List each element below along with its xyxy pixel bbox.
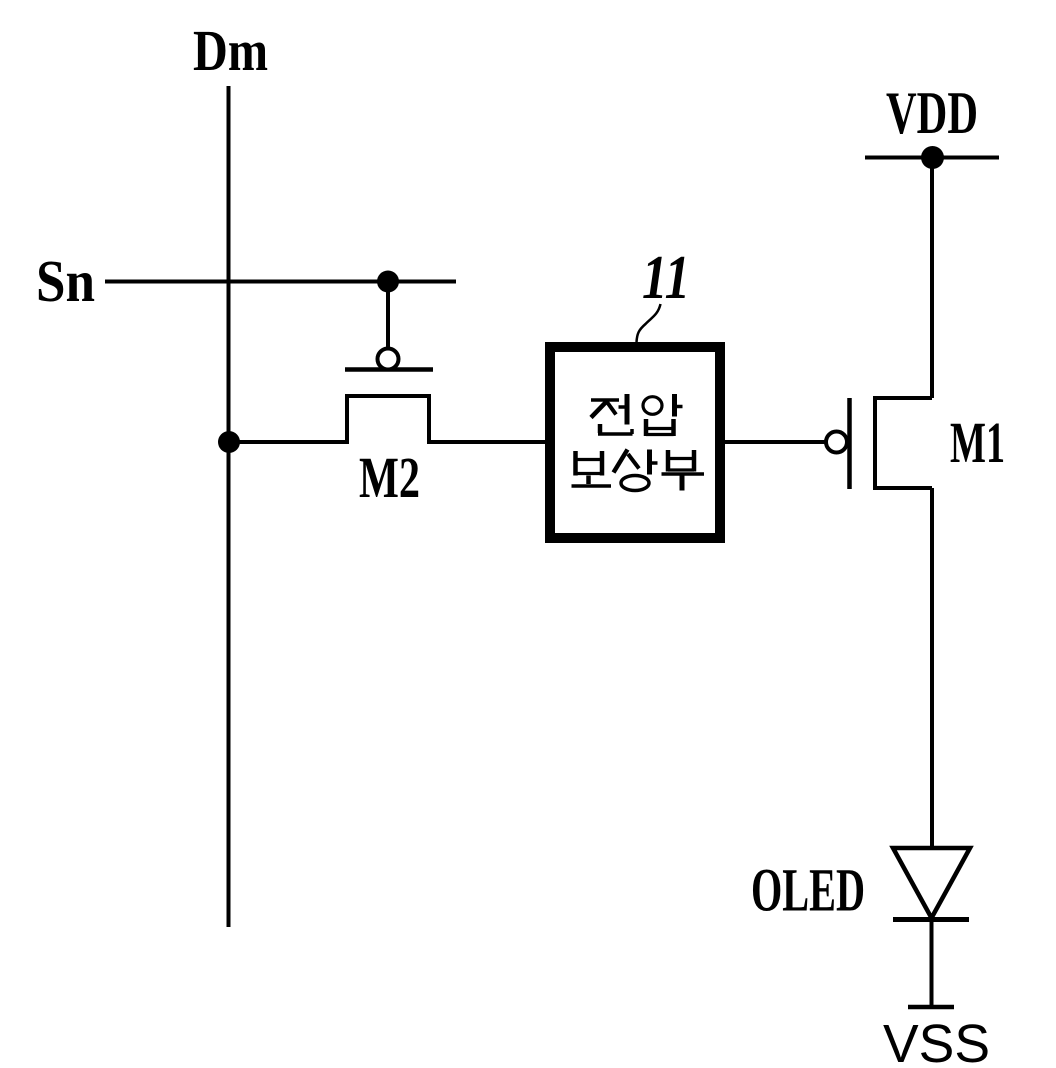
svg-text:Sn: Sn xyxy=(36,248,95,314)
svg-text:M2: M2 xyxy=(359,445,420,510)
svg-text:Dm: Dm xyxy=(193,18,268,83)
svg-text:11: 11 xyxy=(642,244,690,312)
svg-text:M1: M1 xyxy=(950,410,1005,475)
svg-text:VDD: VDD xyxy=(886,80,978,146)
svg-text:OLED: OLED xyxy=(751,858,865,925)
svg-text:VSS: VSS xyxy=(883,1014,990,1068)
